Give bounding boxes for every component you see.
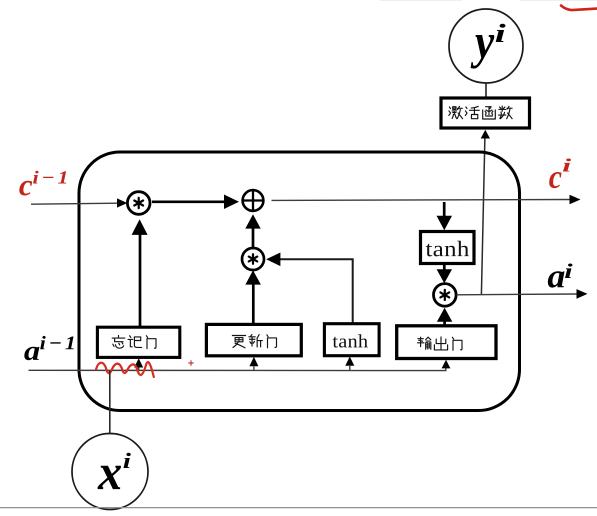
label c^{i-1} (red): [19, 181, 32, 196]
bottom gray separator line: [0, 507, 597, 509]
arrow *1 to plus node: [152, 201, 225, 204]
glyph 新: [249, 335, 263, 347]
text tanh (small box): [333, 334, 368, 347]
elbow wire from small tanh box to *2: [280, 259, 353, 324]
red squiggle annotation on a-wire: [96, 362, 154, 377]
arrow down from c wire to tanh box: [443, 202, 446, 217]
red annotation stroke top-right corner: [561, 6, 597, 11]
label a^i: [548, 271, 565, 287]
label a^{i-1}: [24, 347, 39, 360]
wire y circle to activation box: [485, 83, 487, 98]
node x^i circle: [72, 434, 148, 510]
label c^i (red): [549, 172, 561, 188]
add node (circle-plus): [243, 190, 264, 211]
glyph 门: [267, 335, 277, 348]
text 激活函数: [449, 106, 512, 119]
wire a output: [457, 293, 578, 296]
glyph 门: [146, 336, 156, 349]
text 输出门: [418, 337, 462, 350]
glyph 函: [483, 107, 496, 119]
arrow *2 up to plus node: [252, 228, 255, 248]
glyph 数: [499, 106, 512, 119]
forget gate box 忘记门: [97, 327, 179, 357]
glyph 活: [465, 106, 479, 118]
wire x stem: [109, 371, 111, 434]
tanh box (right): [421, 232, 475, 264]
glyph 更: [232, 336, 245, 348]
update gate box 更新门: [206, 324, 301, 355]
text 忘记门: [112, 335, 156, 348]
text 更新门: [232, 335, 276, 348]
activation function box (激活函数): [441, 98, 530, 128]
wire a^{i-1} input line with elbow up into output gate: [29, 368, 446, 371]
output gate box 输出门: [397, 326, 496, 359]
multiply node *2 (below plus): [242, 248, 264, 270]
faint cropped marks along top edge: [380, 0, 597, 2]
LSTM cell rounded rectangle: [79, 152, 520, 411]
node y^i circle: [449, 9, 523, 83]
glyph 出: [434, 337, 447, 350]
multiply node *1: [127, 192, 150, 215]
label x^i: [98, 466, 122, 489]
arrow tanh box to multiply node *3: [443, 264, 446, 270]
text tanh (right box): [426, 241, 469, 257]
label y^i: [471, 35, 495, 68]
arrow a-wire into update gate: [253, 367, 255, 371]
wire c output: [272, 199, 571, 202]
arrow output gate to *3: [443, 321, 446, 327]
arrow forget gate to *1: [139, 235, 142, 329]
wire c input: [31, 203, 118, 204]
arrow from a-wire up into activation box (long vertical wire): [481, 137, 485, 294]
glyph 忘: [112, 335, 125, 348]
multiply node *3: [434, 284, 457, 307]
arrow update gate to *2: [252, 284, 255, 325]
glyph 记: [128, 336, 142, 348]
arrow a-wire into small tanh box: [349, 366, 351, 371]
tanh small box: [324, 324, 379, 356]
glyph 门: [452, 337, 462, 350]
red dot annotation: [189, 361, 193, 365]
glyph 激: [449, 106, 463, 118]
glyph 输: [418, 337, 431, 349]
arrow a-wire into forget gate: [138, 368, 140, 371]
